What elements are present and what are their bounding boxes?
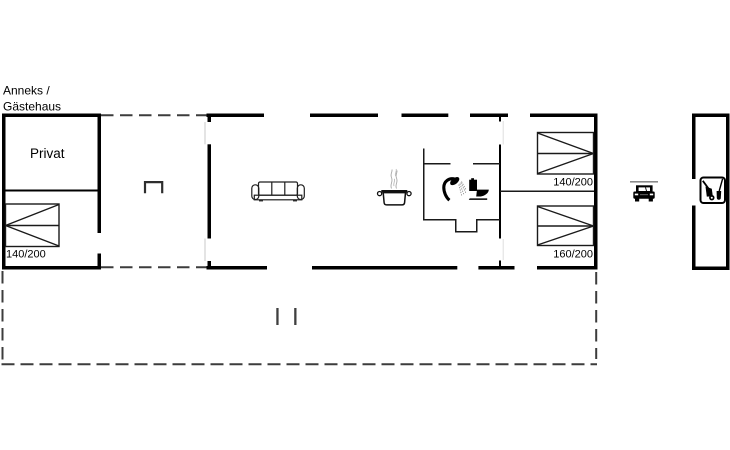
- main top wall seg2: [310, 114, 378, 118]
- svg-text:140/200: 140/200: [6, 249, 46, 261]
- toilet icon: [469, 178, 489, 200]
- door faint line lower: [503, 239, 504, 260]
- outbuilding right wall: [726, 114, 730, 271]
- anneks left wall: [2, 114, 6, 270]
- bathroom top wall left: [423, 163, 451, 165]
- svg-text:Privat: Privat: [30, 146, 65, 161]
- bathroom notch right vert: [476, 219, 478, 233]
- anneks divider wall: [4, 190, 98, 192]
- bathroom notch bottom: [455, 231, 478, 233]
- interior wall x499 top stub: [499, 117, 501, 122]
- interior wall x499 mid: [499, 145, 501, 239]
- bed B3 bottom right: [538, 206, 594, 246]
- svg-text:Anneks /: Anneks /: [3, 84, 50, 98]
- main right wall: [594, 114, 598, 270]
- main top wall seg1: [207, 114, 265, 118]
- terrace tick 1: [276, 308, 278, 325]
- main top wall seg5: [530, 114, 598, 118]
- interior wall x499 bottom stub: [499, 261, 501, 267]
- terrace left dashed edge: [2, 271, 4, 360]
- outbuilding bottom wall: [692, 267, 730, 271]
- terrace tick 2: [294, 308, 296, 325]
- anneks top wall: [2, 114, 101, 118]
- dashed connector bottom between anneks and main: [101, 266, 207, 268]
- carport roof line: [630, 181, 658, 183]
- main top wall seg4: [470, 114, 508, 118]
- svg-text:Gästehaus: Gästehaus: [3, 100, 61, 114]
- anneks right wall upper: [98, 114, 102, 234]
- anneks right wall lower: [98, 254, 102, 270]
- main bottom wall seg2: [312, 266, 457, 270]
- main bottom wall seg4: [537, 266, 598, 270]
- main bottom wall seg3: [478, 266, 514, 270]
- car icon: [633, 185, 654, 201]
- lawnmower: [703, 181, 715, 201]
- bed B2 top right: [538, 133, 594, 175]
- anneks bottom wall: [2, 266, 101, 270]
- label Anneks/Gästehaus: [3, 84, 61, 114]
- main bottom wall seg1: [207, 266, 268, 270]
- shower icon: [444, 175, 467, 200]
- window line left wall lower: [205, 239, 206, 262]
- couch: [252, 182, 304, 201]
- outbuilding left wall lower: [692, 206, 696, 271]
- bathroom bottom wall left: [423, 219, 456, 221]
- dashed connector top between anneks and main: [101, 114, 207, 116]
- svg-text:160/200: 160/200: [553, 249, 593, 261]
- outbuilding top wall: [692, 114, 730, 118]
- terrace right dashed edge: [595, 272, 597, 359]
- bedroom divider wall: [500, 191, 594, 193]
- door faint line: [503, 121, 504, 145]
- pot: [378, 190, 412, 205]
- svg-text:140/200: 140/200: [553, 177, 593, 189]
- outbuilding left wall upper: [692, 114, 696, 180]
- window line left wall upper: [205, 122, 206, 144]
- main left wall seg2: [208, 144, 212, 238]
- bathroom notch left vert: [455, 219, 457, 233]
- garden tools icon box: [701, 178, 726, 204]
- bathroom top wall right: [473, 163, 500, 165]
- spade: [717, 179, 723, 200]
- bathroom left wall: [423, 149, 425, 221]
- grill icon: [145, 182, 162, 193]
- pot steam: [391, 169, 397, 189]
- bed B1 anneks: [6, 204, 60, 247]
- terrace bottom dashed edge: [2, 363, 598, 365]
- main left wall seg1: [208, 114, 212, 123]
- main top wall seg3: [402, 114, 449, 118]
- bathroom bottom wall right: [478, 219, 501, 221]
- main left wall seg3: [208, 261, 212, 270]
